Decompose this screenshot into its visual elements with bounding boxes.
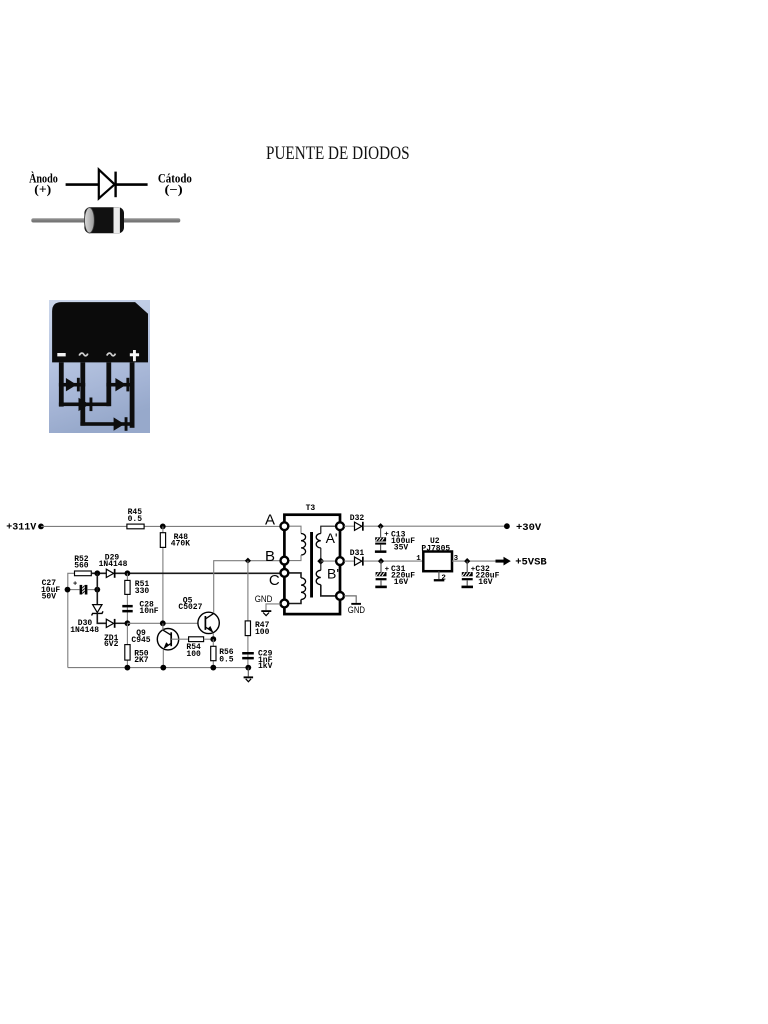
pin A bbox=[265, 511, 288, 530]
svg-text:+: + bbox=[385, 566, 390, 574]
svg-text:B': B' bbox=[327, 566, 339, 582]
label +311V bbox=[6, 522, 36, 533]
svg-text:1: 1 bbox=[416, 555, 421, 563]
svg-text:100: 100 bbox=[255, 628, 270, 637]
capacitor C13 bbox=[375, 526, 415, 553]
diode B4 triangle bbox=[113, 417, 124, 430]
cathode band bbox=[114, 207, 120, 233]
winding primary A-B bbox=[288, 526, 306, 560]
node +311V terminal bbox=[38, 524, 44, 530]
wire D31 to U2 bbox=[364, 560, 424, 562]
pin B bbox=[265, 548, 288, 565]
node junction R52/D29/ZD1 bbox=[94, 570, 100, 576]
node bottom rail C29 bbox=[245, 665, 251, 671]
svg-text:1N4148: 1N4148 bbox=[70, 626, 99, 635]
photo: axial diode component bbox=[25, 200, 185, 240]
arrow +5VSB output bbox=[496, 557, 511, 566]
wire cathode lead bbox=[116, 183, 148, 186]
wire pin to D31 bbox=[344, 560, 355, 562]
wire center tap to pin bbox=[321, 560, 337, 562]
diode B4 bar bbox=[124, 417, 127, 431]
ground bottom bbox=[244, 668, 254, 682]
svg-text:10nF: 10nF bbox=[139, 607, 158, 616]
pin 2 bbox=[80, 362, 85, 425]
svg-text:C5027: C5027 bbox=[178, 603, 202, 612]
svg-text:+5VSB: +5VSB bbox=[515, 557, 547, 569]
diode D29 bbox=[99, 553, 128, 577]
svg-text:+: + bbox=[73, 581, 77, 589]
resistor R52 bbox=[74, 555, 91, 576]
svg-text:35V: 35V bbox=[394, 544, 409, 553]
svg-text:C945: C945 bbox=[131, 636, 150, 645]
winding secondary A' bbox=[316, 526, 337, 561]
wire R48 vertical branch bbox=[162, 526, 164, 623]
node junction C31 bbox=[378, 558, 384, 564]
label Anodo (+) bbox=[29, 171, 58, 196]
wire anode lead bbox=[66, 183, 98, 186]
svg-text:16V: 16V bbox=[478, 578, 493, 587]
node junction C13 bbox=[377, 523, 383, 529]
svg-text:470K: 470K bbox=[171, 539, 190, 548]
photo background bbox=[49, 300, 150, 433]
wire zener branch vertical bbox=[96, 573, 98, 604]
diode B1 triangle bbox=[65, 378, 76, 391]
svg-text:1N4148: 1N4148 bbox=[99, 560, 128, 569]
transistor Q9 C945 bbox=[131, 623, 178, 667]
diode body bbox=[84, 207, 124, 233]
pin C bbox=[269, 569, 288, 589]
svg-text:(−): (−) bbox=[165, 183, 183, 197]
wire left vertical rail bbox=[68, 573, 75, 667]
resistor R50 bbox=[125, 645, 149, 666]
svg-text:1kV: 1kV bbox=[258, 662, 273, 671]
pin 1 bbox=[58, 362, 63, 406]
node junction R45/R48 bbox=[160, 524, 166, 530]
photo: bridge rectifier on blue background bbox=[49, 300, 150, 433]
wire middle diode row bbox=[58, 402, 108, 406]
node +30V terminal bbox=[504, 523, 510, 529]
svg-text:A: A bbox=[265, 511, 275, 528]
svg-text:100: 100 bbox=[186, 650, 201, 659]
winding primary C-GND bbox=[288, 573, 306, 604]
node center tap diamond bbox=[317, 558, 324, 565]
svg-text:0.5: 0.5 bbox=[219, 655, 234, 664]
wire +30V rail bbox=[364, 525, 507, 527]
wire bottom diode row bbox=[80, 422, 132, 426]
node bottom rail Q9 emitter bbox=[160, 665, 166, 671]
resistor R47 bbox=[245, 621, 269, 637]
node C27 right junction bbox=[94, 587, 100, 593]
svg-text:16V: 16V bbox=[394, 578, 409, 587]
node junction C32 bbox=[464, 558, 470, 564]
wire R50 to bottom rail bbox=[126, 623, 128, 667]
diode cathode bar bbox=[114, 172, 116, 198]
svg-text:+30V: +30V bbox=[516, 522, 542, 534]
svg-text:3: 3 bbox=[454, 555, 459, 563]
node junction D29/R51/C-rail bbox=[125, 570, 131, 576]
wire R47 branch vertical bbox=[247, 561, 249, 668]
pin 4 bbox=[129, 362, 134, 427]
svg-text:(+): (+) bbox=[34, 183, 51, 197]
capacitor C27 bbox=[41, 579, 97, 601]
wire zener to D30 bbox=[97, 613, 106, 623]
zener diode ZD1 bbox=[92, 605, 119, 650]
diode B3 triangle bbox=[78, 397, 89, 410]
schematic: standby supply circuit bbox=[0, 495, 560, 695]
wire R54 to emitter node bbox=[204, 638, 214, 640]
body end cap bbox=[85, 208, 95, 233]
pin 3 bbox=[106, 362, 111, 406]
wire top diode row left bbox=[58, 382, 84, 386]
transistor Q5 C5027 bbox=[178, 596, 219, 639]
diode D32 bbox=[350, 514, 365, 531]
bridge body bbox=[52, 302, 148, 362]
diode B1 bar bbox=[76, 377, 79, 391]
winding secondary B' bbox=[316, 561, 339, 596]
diode B3 bar bbox=[89, 397, 92, 411]
svg-text:D32: D32 bbox=[350, 514, 365, 523]
svg-text:B: B bbox=[265, 548, 275, 565]
wire Q9 base to R54 bbox=[171, 638, 188, 640]
ground U2 pin2 bbox=[434, 571, 447, 582]
pin secondary top bbox=[336, 522, 344, 530]
pin GND left bbox=[281, 600, 289, 608]
node C27 left junction bbox=[65, 587, 71, 593]
wire bottom rail bbox=[68, 667, 249, 669]
resistor R51 bbox=[125, 573, 150, 623]
marking plus bbox=[129, 350, 138, 361]
wire C rail (R52 to transformer pin C) bbox=[91, 572, 284, 574]
capacitor C32 bbox=[462, 561, 500, 588]
node junction D30/R51/R50 bbox=[125, 620, 131, 626]
wire pin to D32 bbox=[344, 525, 355, 527]
label +5VSB bbox=[515, 557, 547, 569]
diode D30 bbox=[70, 619, 127, 635]
diode lead wire bbox=[31, 218, 180, 222]
svg-text:0.5: 0.5 bbox=[128, 515, 143, 524]
svg-text:A': A' bbox=[326, 530, 338, 546]
diode B2 triangle bbox=[115, 378, 126, 391]
svg-text:T3: T3 bbox=[306, 504, 316, 513]
svg-text:GND: GND bbox=[348, 605, 366, 615]
ground right of transformer bbox=[344, 596, 365, 615]
svg-text:6V2: 6V2 bbox=[104, 640, 119, 649]
marking tilde 2 bbox=[106, 353, 115, 356]
svg-text:2: 2 bbox=[441, 574, 446, 582]
ground left of transformer bbox=[255, 594, 281, 616]
capacitor C28 bbox=[122, 601, 159, 617]
pin secondary bottom bbox=[336, 592, 344, 600]
capacitor C29 bbox=[242, 649, 272, 671]
diode D symbol triangle bbox=[99, 170, 115, 199]
svg-text:+: + bbox=[384, 531, 389, 539]
marking minus bbox=[57, 353, 65, 356]
title PUENTE DE DIODOS (bottom-clipped) bbox=[266, 146, 486, 159]
svg-text:560: 560 bbox=[74, 561, 89, 570]
wire base line to Q5 bbox=[127, 622, 198, 624]
svg-text:2K7: 2K7 bbox=[134, 656, 149, 665]
svg-text:+311V: +311V bbox=[6, 522, 36, 533]
node bottom rail R56 bbox=[210, 665, 216, 671]
label Catodo (-) bbox=[158, 171, 192, 196]
label +30V bbox=[516, 522, 542, 534]
svg-text:PJ7805: PJ7805 bbox=[421, 544, 450, 553]
figure: diode symbol with Anodo/Catodo labels bbox=[0, 160, 230, 250]
pin secondary middle bbox=[336, 557, 344, 565]
svg-text:330: 330 bbox=[135, 587, 150, 596]
resistor R56 bbox=[211, 639, 234, 667]
transformer T3 body bbox=[284, 504, 340, 614]
svg-text:50V: 50V bbox=[42, 593, 57, 602]
resistor R48 bbox=[160, 533, 190, 549]
node bottom rail R50 bbox=[125, 665, 131, 671]
svg-text:C: C bbox=[269, 572, 280, 589]
capacitor C31 bbox=[375, 561, 415, 588]
node junction Q5 emitter / R54 / R56 bbox=[210, 636, 216, 642]
diode D31 bbox=[350, 549, 365, 565]
wire Q5 collector to B rail bbox=[214, 561, 285, 613]
wire +311V rail bbox=[41, 525, 284, 527]
regulator U2 PJ7805 bbox=[416, 537, 458, 571]
resistor R54 bbox=[186, 637, 203, 659]
wire top diode row right bbox=[106, 382, 134, 386]
svg-text:D31: D31 bbox=[350, 549, 365, 558]
svg-text:GND: GND bbox=[255, 594, 273, 604]
marking tilde 1 bbox=[79, 353, 88, 356]
diode B2 bar bbox=[126, 377, 129, 391]
node junction R48/Q9 collector bbox=[160, 620, 166, 626]
node junction B rail / R47 bbox=[245, 558, 251, 564]
resistor R45 bbox=[127, 508, 144, 529]
wire U2 out rail bbox=[452, 560, 496, 562]
